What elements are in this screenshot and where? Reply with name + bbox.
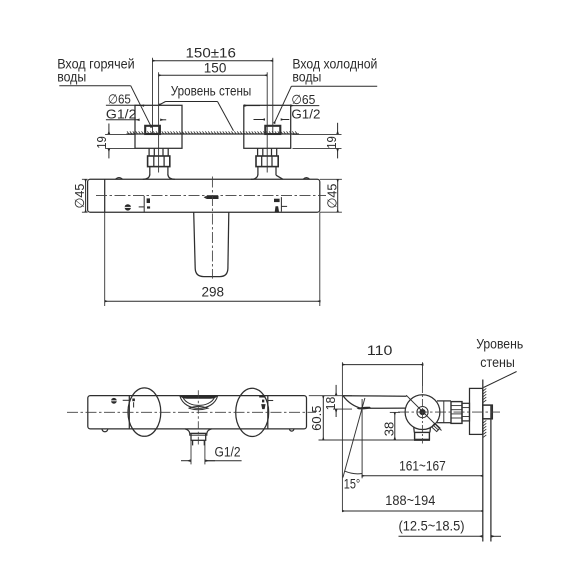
svg-text:188~194: 188~194 <box>385 493 435 508</box>
svg-text:стены: стены <box>480 355 515 370</box>
svg-text:110: 110 <box>367 343 393 358</box>
svg-text:(12.5~18.5): (12.5~18.5) <box>399 519 465 534</box>
svg-text:воды: воды <box>57 70 86 85</box>
svg-text:38: 38 <box>382 422 397 437</box>
svg-text:19: 19 <box>324 136 339 149</box>
svg-text:15°: 15° <box>344 476 361 491</box>
svg-text:воды: воды <box>292 70 321 85</box>
svg-text:∅65: ∅65 <box>291 92 315 107</box>
svg-text:G1/2: G1/2 <box>215 445 241 460</box>
svg-text:Уровень: Уровень <box>476 336 523 351</box>
svg-text:G1/2: G1/2 <box>106 106 137 121</box>
svg-text:161~167: 161~167 <box>399 459 446 474</box>
svg-text:150±16: 150±16 <box>186 46 236 61</box>
svg-text:Уровень стены: Уровень стены <box>171 83 252 98</box>
svg-text:∅45: ∅45 <box>72 184 87 209</box>
svg-text:298: 298 <box>202 285 225 300</box>
svg-text:19: 19 <box>94 136 109 149</box>
svg-text:150: 150 <box>204 60 227 75</box>
svg-text:18: 18 <box>323 397 338 411</box>
svg-text:G1/2: G1/2 <box>291 106 320 121</box>
svg-text:∅65: ∅65 <box>108 92 131 107</box>
svg-text:∅45: ∅45 <box>324 184 339 209</box>
svg-text:60.5: 60.5 <box>309 406 324 431</box>
